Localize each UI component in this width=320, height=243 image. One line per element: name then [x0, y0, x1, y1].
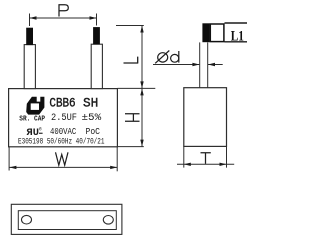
svg-text:®: ® [39, 126, 42, 133]
dimension T label [201, 153, 211, 164]
svg-text:E305198 50/60Hz 40/70/21: E305198 50/60Hz 40/70/21 [18, 139, 105, 147]
svg-text:ЯU: ЯU [27, 128, 40, 139]
bottom view left mounting hole [22, 215, 32, 224]
dimension T line with arrows [177, 146, 234, 167]
side view capacitor body [184, 88, 227, 147]
dimension L1 lines [225, 23, 248, 42]
svg-text:SH: SH [83, 97, 98, 111]
svg-text:400VAC: 400VAC [50, 126, 77, 137]
svg-text:CBB6: CBB6 [49, 97, 75, 111]
side view terminal tip (black) [202, 23, 209, 42]
bottom view right mounting hole [103, 216, 113, 225]
UL recognized component mark [27, 126, 43, 139]
brand logo [26, 97, 44, 115]
dimension L and H vertical line [116, 26, 155, 147]
dimension L label (rotated) [124, 57, 139, 64]
dimension P line with arrows [30, 14, 97, 27]
bottom view outer outline [11, 204, 122, 234]
label row2: 2.5UF ±5% [51, 113, 101, 124]
dimension W label [56, 152, 69, 165]
svg-text:SR. CAP: SR. CAP [19, 115, 45, 123]
dimension Ød leader and arrows [153, 64, 223, 66]
left terminal lead [24, 28, 35, 89]
label row3: 400VAC PoC [50, 126, 100, 137]
svg-text:2.5UF: 2.5UF [51, 113, 77, 124]
dimension W line with arrows [9, 147, 117, 172]
front view capacitor body [9, 89, 118, 147]
dimension Ød label [155, 51, 179, 64]
svg-text:L1: L1 [231, 28, 244, 44]
svg-text:PoC: PoC [86, 126, 101, 137]
side view lead shaft [200, 42, 208, 87]
right terminal lead [91, 27, 102, 89]
side view terminal tip (outlined) [210, 24, 224, 42]
bottom view inner outline [18, 211, 116, 230]
svg-text:±5%: ±5% [82, 113, 102, 124]
dimension H label (rotated) [125, 114, 140, 122]
dimension P label [59, 4, 69, 16]
label row1: CBB6 SH [49, 97, 98, 111]
